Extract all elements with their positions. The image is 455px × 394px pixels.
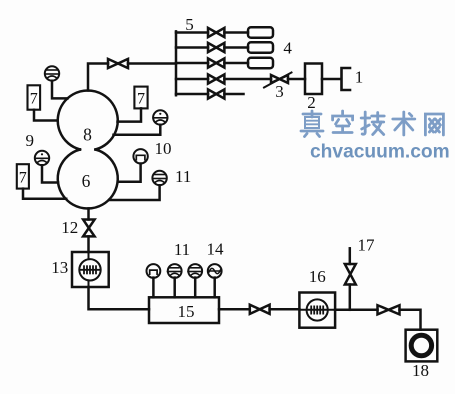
- valve 5 (branch 2): [208, 43, 224, 52]
- wire: branch 3: [176, 62, 248, 65]
- gauge 14 (on tank 15, thermocouple): [208, 264, 222, 278]
- wire: branch 5: [176, 93, 244, 96]
- wire: gauge 14 stem: [213, 278, 216, 298]
- svg-text:5: 5: [185, 15, 194, 34]
- svg-text:1: 1: [355, 68, 364, 87]
- pump 18: [406, 330, 438, 362]
- svg-text:18: 18: [412, 361, 429, 380]
- chamber 6: [58, 150, 118, 209]
- svg-text:17: 17: [358, 236, 376, 255]
- svg-text:4: 4: [283, 39, 292, 58]
- sensor 7 (upper left): [28, 85, 41, 109]
- valve (after tank 15): [250, 305, 270, 314]
- port 4 (branch 2 flange): [248, 42, 273, 53]
- wire: gauge to chamber 8 right: [114, 125, 161, 135]
- wire: valve to pump 18: [400, 310, 421, 330]
- wire: vent riser: [349, 248, 352, 309]
- wire: branch 4: [176, 78, 305, 81]
- valve 5 (branch 5): [208, 89, 224, 98]
- wire: branch 2: [176, 46, 248, 49]
- wire: valve 12 to trap 13: [87, 236, 90, 252]
- char shu: [393, 112, 415, 135]
- svg-text:11: 11: [175, 167, 191, 186]
- svg-text:chvacuum.com: chvacuum.com: [310, 142, 450, 163]
- valve (top feed): [108, 59, 128, 68]
- pump 16: [299, 293, 335, 328]
- wire: sensor 7 LL to chamber 6: [23, 189, 66, 199]
- tank 15: [149, 297, 219, 323]
- wire: gauge 9 to chamber 6: [42, 165, 58, 182]
- wire: pump 16 to valve (with vent tee): [335, 309, 377, 312]
- svg-text:7: 7: [30, 91, 38, 108]
- wire: gauge A stem: [152, 278, 155, 298]
- svg-text:9: 9: [26, 131, 35, 150]
- gauge (top-left of chamber 8): [45, 66, 59, 80]
- wire: chamber 8 top to manifold: [88, 64, 176, 91]
- wire: gauge 11 to chamber 6: [109, 185, 159, 200]
- svg-text:3: 3: [275, 82, 284, 101]
- wire: gauge 10 to chamber 6: [118, 164, 141, 182]
- wire: sensor 7 UL to chamber 8: [34, 110, 58, 121]
- svg-text:11: 11: [174, 240, 190, 259]
- pump 2: [305, 64, 322, 95]
- sensor 7 (upper right): [134, 87, 147, 109]
- svg-text:16: 16: [309, 267, 326, 286]
- wire: branch 1: [176, 31, 248, 34]
- valve 17: [345, 264, 356, 285]
- char kong: [333, 111, 353, 133]
- sensor 7 (lower left): [17, 164, 29, 188]
- gauge C (on tank 15): [188, 264, 202, 278]
- valve (before pump 18): [378, 305, 400, 314]
- wire: gauge C stem: [194, 278, 197, 298]
- char zhen: [301, 111, 323, 137]
- gauge B (on tank 15): [168, 264, 182, 278]
- svg-text:2: 2: [307, 93, 316, 112]
- gauge A (on tank 15, bridge type): [147, 264, 161, 278]
- gauge (right of chamber 8): [153, 110, 167, 124]
- valve 5 (branch 4): [208, 74, 224, 83]
- svg-text:7: 7: [19, 170, 27, 187]
- gauge 10: [133, 149, 147, 163]
- gauge 11: [152, 171, 166, 185]
- valve 5 (branch 3): [208, 58, 224, 67]
- svg-text:6: 6: [82, 171, 91, 191]
- wire: trap 13 to tank 15: [89, 287, 150, 309]
- svg-text:15: 15: [178, 302, 195, 321]
- svg-text:10: 10: [155, 139, 172, 158]
- wire: pump 2 to fitting 1: [322, 78, 341, 81]
- watermark: 真空技术网 (hand-drawn strokes): [301, 111, 443, 137]
- wire: gauge to chamber 8: [52, 81, 68, 99]
- wire: chamber 6 to valve 12: [87, 208, 90, 219]
- valve 12: [83, 220, 95, 237]
- chamber 8: [58, 90, 118, 149]
- port 4 (branch 1 flange): [248, 27, 273, 38]
- trap 13: [72, 252, 109, 287]
- manifold header: [175, 31, 178, 95]
- char wang: [425, 114, 443, 135]
- svg-text:13: 13: [51, 258, 68, 277]
- char ji: [361, 112, 384, 135]
- svg-text:7: 7: [137, 91, 145, 108]
- valve 5 (branch 1): [208, 28, 224, 37]
- wire: valve to pump 16: [270, 308, 300, 311]
- svg-text:12: 12: [61, 218, 78, 237]
- valve 3: [264, 73, 292, 88]
- wire: gauge B stem: [173, 278, 176, 298]
- svg-text:14: 14: [207, 240, 225, 259]
- svg-text:8: 8: [83, 125, 92, 145]
- port 4 (branch 3 flange): [248, 58, 273, 69]
- wire: tank 15 to valve: [219, 308, 250, 311]
- fitting 1: [342, 68, 351, 90]
- gauge 9: [35, 151, 49, 165]
- wire: sensor 7 UR to chamber 8: [118, 108, 142, 121]
